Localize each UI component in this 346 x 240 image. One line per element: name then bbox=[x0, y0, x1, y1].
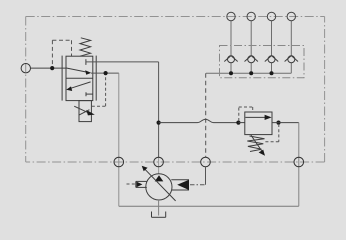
port circle A (drain) bbox=[114, 157, 124, 167]
pump variable arrow bbox=[145, 169, 176, 201]
valve bottom position arrow bbox=[70, 82, 91, 89]
enclosure dash-dot border bbox=[26, 17, 325, 163]
port circle top 4 bbox=[287, 12, 295, 20]
wire: left port to valve P bbox=[31, 67, 67, 69]
wire: bottom drain bus bbox=[119, 205, 299, 207]
wire: relief feed with hop over dashed drop bbox=[159, 119, 239, 122]
check valve 3 bbox=[265, 56, 278, 63]
pump M1 circle bbox=[146, 174, 172, 200]
junction dots on bus bbox=[229, 71, 233, 75]
node: relief inlet dot bbox=[236, 121, 240, 125]
valve body U1 bbox=[66, 56, 93, 100]
solenoid Y1 box bbox=[79, 101, 91, 122]
wire: pump feed column bbox=[158, 62, 160, 157]
port circle top 2 bbox=[247, 12, 255, 20]
pilot dashed from solenoid to output node bbox=[92, 75, 106, 106]
pump outlet triangle bbox=[155, 175, 164, 181]
wire: valve output to drain column bbox=[91, 72, 119, 74]
node: relief outlet dot bbox=[276, 121, 280, 125]
port circle top 1 bbox=[227, 12, 235, 20]
wire: check valve bus bbox=[206, 72, 291, 74]
valve bottom blocked port T bbox=[85, 92, 87, 96]
relief spring (adjustable) bbox=[247, 136, 264, 152]
relief valve box bbox=[245, 112, 272, 135]
manifold dashed box around check valves bbox=[220, 46, 305, 78]
check valve 1 bbox=[224, 56, 237, 63]
node: pilot tap dot bbox=[50, 66, 54, 70]
relief pilot dashed (upstream sense) bbox=[239, 107, 253, 121]
node: solenoid pilot tap bbox=[104, 71, 108, 75]
valve left rail bbox=[61, 56, 63, 101]
spring on valve top bbox=[80, 38, 91, 56]
port circle T bbox=[294, 157, 304, 167]
tank symbol bbox=[152, 212, 166, 218]
wire: gauge line from valve to pump column bbox=[86, 61, 159, 63]
check valve 4 bbox=[285, 56, 298, 63]
wire: into relief box bbox=[238, 122, 244, 124]
port circle B (pump feed) bbox=[154, 157, 164, 167]
pump case port (right) with triangle bbox=[171, 180, 189, 190]
port circle P bbox=[201, 157, 211, 167]
port circle left bbox=[21, 63, 30, 72]
control dashed lead bbox=[127, 183, 137, 185]
check valve 2 bbox=[245, 56, 258, 63]
wire: output down to drain bus bbox=[118, 73, 120, 206]
pilot dashed box above valve bbox=[52, 40, 71, 66]
wire: relief out to right column bbox=[272, 122, 299, 124]
node: relief branch dot bbox=[157, 121, 161, 125]
relief internal arrow bbox=[245, 116, 266, 118]
valve right rail bbox=[95, 56, 97, 101]
pump stroke control port (left) bbox=[136, 181, 147, 187]
valve top position arrow bbox=[66, 68, 87, 72]
solenoid diagonal arrow bbox=[74, 106, 88, 112]
relief drain pilot dashed bbox=[265, 124, 279, 142]
control arrow into port bbox=[136, 182, 142, 188]
dashed link to port P column bbox=[190, 184, 206, 186]
wire: check valve drop lines from top ports bbox=[231, 21, 291, 73]
port circle top 3 bbox=[267, 12, 275, 20]
valve top blocked port T bbox=[85, 59, 87, 65]
wire: pump drain to tank bbox=[158, 200, 160, 216]
wire: dashed drop from bus corner to port P bbox=[205, 73, 207, 157]
wire: right column down to drain bus bbox=[298, 123, 300, 207]
